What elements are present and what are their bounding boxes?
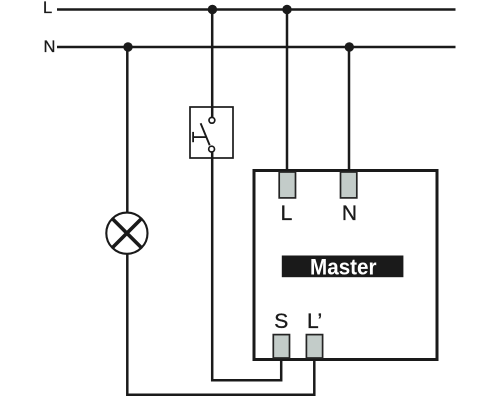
svg-text:N: N — [44, 38, 56, 56]
svg-text:L’: L’ — [307, 310, 322, 333]
svg-text:L: L — [281, 202, 293, 225]
svg-text:L: L — [43, 0, 52, 17]
svg-text:N: N — [342, 202, 357, 225]
svg-text:S: S — [274, 310, 288, 333]
svg-text:Master: Master — [310, 254, 377, 279]
